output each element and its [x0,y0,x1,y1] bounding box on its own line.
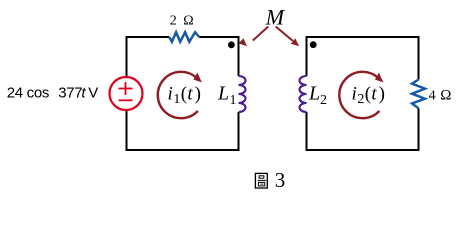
svg-text:Ω: Ω [440,88,451,104]
svg-text:377: 377 [58,84,82,101]
svg-text:Ω: Ω [183,14,193,29]
svg-text:t: t [371,83,377,104]
svg-text:1: 1 [173,92,180,107]
svg-text:2: 2 [170,14,177,29]
svg-text:24 cos: 24 cos [7,84,49,101]
svg-text:L: L [308,83,320,105]
svg-text:i: i [168,83,173,104]
svg-text:): ) [379,83,385,104]
svg-text:2: 2 [320,93,327,108]
svg-text:M: M [265,5,286,30]
svg-text:L: L [217,83,229,105]
svg-text:3: 3 [275,168,286,192]
svg-text:): ) [195,83,201,104]
svg-text:4: 4 [429,89,436,104]
svg-text:t: t [187,83,193,104]
svg-text:1: 1 [230,93,237,108]
svg-text:2: 2 [357,92,364,107]
svg-text:(: ( [365,83,371,104]
svg-text:i: i [352,83,357,104]
svg-text:(: ( [181,83,187,104]
svg-text:V: V [88,84,98,101]
